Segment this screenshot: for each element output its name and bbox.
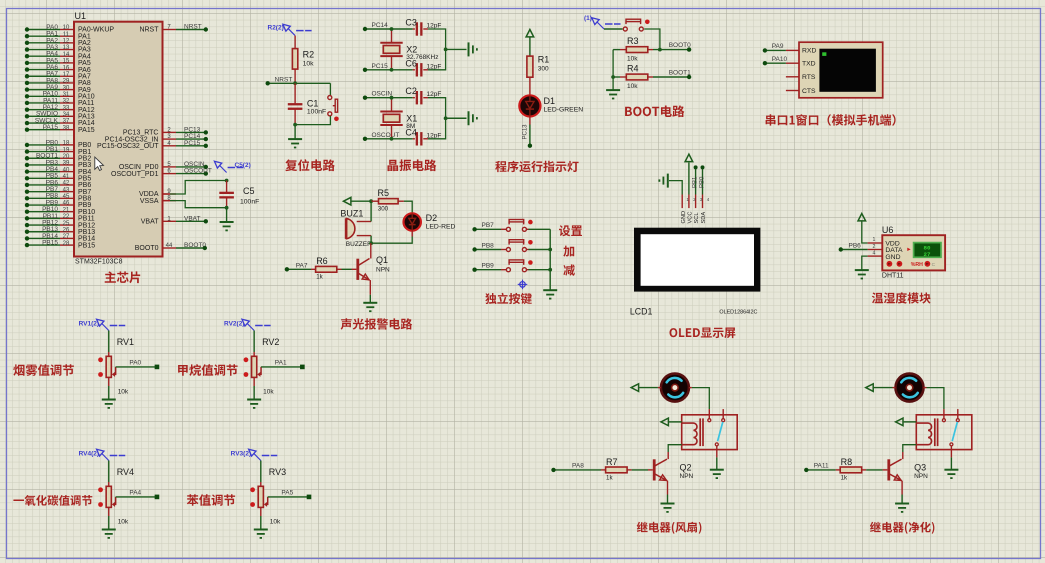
svg-text:PC14: PC14 bbox=[372, 22, 389, 29]
push button PB9 bbox=[506, 268, 510, 272]
DHT11 pin DATA bbox=[868, 249, 883, 251]
wire Q2 emitter to ground bbox=[667, 481, 669, 495]
voltage probe RV4(2) bbox=[97, 449, 104, 456]
svg-text:PA15: PA15 bbox=[78, 127, 95, 134]
wire OLED SDA to PB0 bbox=[702, 195, 704, 209]
wire VSSA to C5 bottom bbox=[163, 200, 171, 202]
wire net PA3 to U1 pin 13 bbox=[27, 49, 60, 51]
svg-text:40: 40 bbox=[63, 167, 70, 173]
wire net PA5 to U1 pin 15 bbox=[27, 62, 60, 64]
wire net PA1 to U1 pin 11 bbox=[27, 35, 60, 37]
svg-text:PA7: PA7 bbox=[296, 262, 308, 269]
wire net VBAT bbox=[176, 220, 206, 222]
crystal X1 bbox=[391, 98, 393, 112]
DHT11 pin VDD bbox=[868, 242, 883, 244]
svg-text:PC15: PC15 bbox=[184, 140, 201, 147]
potentiometer RV1 bbox=[108, 331, 110, 353]
svg-text:PA0: PA0 bbox=[129, 360, 141, 367]
label 烟雾值调节 bbox=[13, 364, 74, 376]
svg-text:C2: C2 bbox=[405, 86, 417, 96]
label 温湿度模块 bbox=[872, 292, 931, 303]
svg-text:C6: C6 bbox=[405, 58, 417, 68]
svg-text:21: 21 bbox=[63, 207, 70, 213]
svg-text:OSCIN: OSCIN bbox=[372, 91, 393, 98]
svg-text:300: 300 bbox=[538, 66, 549, 73]
svg-text:GND: GND bbox=[885, 254, 900, 261]
svg-text:(1): (1) bbox=[584, 15, 592, 22]
svg-text:U6: U6 bbox=[882, 225, 894, 235]
wire net PA0 to U1 pin 10 bbox=[27, 29, 60, 31]
wire C5 to ground bbox=[226, 208, 228, 222]
svg-text:BUZZER: BUZZER bbox=[346, 241, 372, 248]
DHT11 pin GND bbox=[868, 255, 883, 257]
svg-text:VSSA: VSSA bbox=[140, 198, 159, 205]
junction PC15 crystal bbox=[390, 68, 394, 72]
svg-text:PC15-OSC32_OUT: PC15-OSC32_OUT bbox=[97, 143, 159, 150]
svg-text:R1: R1 bbox=[538, 55, 550, 65]
svg-text:PA4: PA4 bbox=[129, 490, 141, 497]
wire VCC to R1 bbox=[529, 38, 531, 57]
wire net PC15 bbox=[365, 69, 392, 71]
wire RV1 to ground bbox=[108, 377, 110, 386]
junction OSCOUT crystal bbox=[390, 137, 394, 141]
wire RV4 to ground bbox=[108, 507, 110, 516]
capacitor C3 bbox=[392, 28, 413, 30]
svg-text:PB15: PB15 bbox=[78, 242, 95, 249]
label 继电器(净化) bbox=[870, 522, 935, 534]
svg-text:100nF: 100nF bbox=[307, 109, 326, 116]
wire net SWDIO to U1 pin 34 bbox=[27, 115, 60, 117]
wire C1 to ground bbox=[294, 125, 296, 140]
power arrow DHT11 VDD bbox=[858, 214, 866, 221]
ground BOOT circuit bbox=[606, 89, 620, 91]
wire power to fan bbox=[874, 387, 893, 389]
junction X2 ground rail bbox=[444, 48, 448, 52]
wire buzzer bottom to collector bbox=[370, 236, 372, 244]
svg-text:10: 10 bbox=[63, 25, 70, 31]
resistor R6 bbox=[311, 268, 316, 270]
svg-text:D2: D2 bbox=[426, 213, 438, 223]
svg-text:RV3(2): RV3(2) bbox=[231, 450, 251, 457]
wire power to R5 junction bbox=[352, 200, 372, 202]
wire GND to ground bbox=[862, 256, 868, 270]
svg-text:BOOT0: BOOT0 bbox=[669, 42, 691, 49]
svg-text:C4: C4 bbox=[405, 127, 417, 137]
wire net PB7 to U1 pin 43 bbox=[27, 191, 60, 193]
ground Q2 bbox=[661, 503, 675, 505]
junction node C5 bottom bbox=[225, 206, 229, 210]
wire X2 caps to ground rail bbox=[428, 29, 446, 70]
svg-text:X2: X2 bbox=[406, 44, 417, 54]
svg-text:U1: U1 bbox=[75, 11, 87, 21]
svg-text:16: 16 bbox=[63, 65, 70, 71]
fan motor Q2 block bbox=[661, 374, 689, 402]
power arrow fan bbox=[866, 384, 873, 392]
svg-text:C: C bbox=[932, 262, 936, 268]
transistor Q3 bbox=[887, 459, 890, 480]
resistor R8 bbox=[836, 469, 841, 471]
wire RV2 to ground bbox=[253, 377, 255, 386]
capacitor C4 bbox=[392, 138, 413, 140]
svg-text:SCL: SCL bbox=[694, 212, 700, 223]
svg-text:42: 42 bbox=[63, 181, 70, 187]
svg-text:PA9: PA9 bbox=[772, 43, 784, 50]
wire net OSCOUT bbox=[365, 138, 392, 140]
wire fan to relay switch bbox=[924, 387, 927, 389]
svg-text:NPN: NPN bbox=[914, 473, 928, 480]
svg-text:PB6: PB6 bbox=[849, 243, 862, 250]
wire net PC14 bbox=[176, 138, 206, 140]
wire net SWCLK to U1 pin 37 bbox=[27, 122, 60, 124]
svg-text:RV4: RV4 bbox=[117, 467, 134, 477]
svg-text:12: 12 bbox=[63, 39, 70, 45]
wire OLED SCL to PB1 bbox=[695, 195, 697, 209]
svg-text:PB8: PB8 bbox=[482, 242, 495, 249]
label 主芯片 bbox=[105, 271, 141, 283]
power arrow OLED VCC bbox=[685, 154, 693, 161]
wire net PA9 to RXD bbox=[765, 49, 786, 51]
ground RV2 bbox=[247, 399, 261, 401]
wire net PA4 bbox=[116, 496, 157, 498]
wire net PB9 to button bbox=[475, 269, 501, 271]
label 加 bbox=[563, 246, 574, 257]
buzzer BUZ1 bbox=[347, 219, 355, 239]
wire net PA8 to U1 pin 29 bbox=[27, 82, 60, 84]
svg-text:28: 28 bbox=[63, 241, 70, 247]
wire net PA1 bbox=[261, 366, 302, 368]
potentiometer RV4 bbox=[108, 461, 110, 483]
svg-text:BOOT1: BOOT1 bbox=[669, 70, 691, 77]
wire relay coil to collector bbox=[668, 445, 682, 452]
mouse cursor bbox=[95, 157, 104, 171]
label 甲烷值调节 bbox=[178, 364, 238, 376]
relay coil bbox=[682, 423, 697, 445]
svg-text:TXD: TXD bbox=[802, 61, 816, 68]
voltage probe RV1(2) bbox=[97, 319, 104, 326]
resistor R1 bbox=[527, 56, 533, 77]
svg-text:R5: R5 bbox=[378, 188, 390, 198]
svg-text:RXD: RXD bbox=[802, 48, 816, 55]
wire net PB11 to U1 pin 22 bbox=[27, 217, 60, 219]
svg-text:RV1: RV1 bbox=[117, 337, 134, 347]
svg-text:1k: 1k bbox=[841, 475, 848, 482]
svg-text:2: 2 bbox=[873, 244, 876, 250]
ground RV3 bbox=[254, 529, 268, 531]
svg-text:300: 300 bbox=[378, 206, 389, 213]
svg-text:SDA: SDA bbox=[701, 212, 707, 224]
wire power to fan bbox=[639, 387, 658, 389]
voltage probe RV3(2) bbox=[249, 449, 256, 456]
potentiometer RV4 adjust dots bbox=[98, 487, 103, 492]
label 继电器(风扇) bbox=[637, 522, 702, 534]
svg-text:RV3: RV3 bbox=[269, 467, 286, 477]
svg-text:OSCOUT_PD1: OSCOUT_PD1 bbox=[111, 171, 159, 178]
crystal X2 bbox=[391, 29, 393, 43]
wire OLED VCC to power bbox=[688, 195, 690, 209]
svg-text:1k: 1k bbox=[606, 475, 613, 482]
svg-text:Q3: Q3 bbox=[914, 462, 926, 472]
wire relay common to ground bbox=[950, 446, 952, 458]
wire net PA7 to U1 pin 17 bbox=[27, 75, 60, 77]
svg-text:RV2: RV2 bbox=[262, 337, 279, 347]
wire boot button to BOOT0 junction bbox=[644, 29, 660, 50]
wire net PA11 to U1 pin 32 bbox=[27, 102, 60, 104]
wire OLED GND to ground bbox=[681, 195, 683, 209]
potentiometer RV1 adjust dots bbox=[98, 357, 103, 362]
label 独立按键 bbox=[485, 293, 532, 304]
ground RV1 bbox=[102, 399, 116, 401]
svg-text:VBAT: VBAT bbox=[184, 215, 201, 222]
svg-text:R3: R3 bbox=[627, 36, 639, 46]
svg-text:BOOT0: BOOT0 bbox=[135, 245, 159, 252]
svg-text:1: 1 bbox=[873, 237, 876, 243]
svg-text:PB9: PB9 bbox=[482, 263, 495, 270]
wire net PB6 to U1 pin 42 bbox=[27, 184, 60, 186]
ground reset circuit bbox=[288, 138, 302, 140]
relay body bbox=[682, 415, 738, 450]
wire D1 to PC13 terminal bbox=[529, 117, 531, 125]
wire net PA7 to R6 bbox=[287, 268, 311, 270]
wire net PA6 to U1 pin 16 bbox=[27, 69, 60, 71]
potentiometer RV2 adjust dots bbox=[244, 357, 249, 362]
potentiometer RV3 wiper bbox=[265, 497, 268, 505]
svg-text:PB15: PB15 bbox=[42, 240, 58, 247]
wire VDD power bbox=[862, 222, 868, 244]
svg-text:27: 27 bbox=[924, 251, 931, 258]
junction R5 left bbox=[369, 199, 373, 203]
wire net BOOT1 bbox=[653, 76, 689, 78]
svg-text:VCC: VCC bbox=[688, 211, 694, 223]
svg-text:C5(2): C5(2) bbox=[235, 162, 251, 169]
ground buttons bbox=[543, 289, 557, 291]
DHT11 U6 body bbox=[882, 235, 945, 270]
svg-text:41: 41 bbox=[63, 174, 70, 180]
wire button PB9 to common rail bbox=[526, 269, 528, 271]
wire net PB9 to U1 pin 46 bbox=[27, 204, 60, 206]
svg-text:▶: ▶ bbox=[907, 246, 911, 251]
resistor R3 bbox=[613, 49, 620, 51]
wire net OSCIN bbox=[365, 97, 392, 99]
transistor Q2 bbox=[653, 459, 656, 480]
boot button bbox=[623, 27, 627, 31]
svg-text:R6: R6 bbox=[316, 256, 328, 266]
wire net PB15 to U1 pin 28 bbox=[27, 244, 60, 246]
svg-text:30: 30 bbox=[63, 85, 70, 91]
ground X1 bbox=[468, 111, 470, 125]
svg-text:R4: R4 bbox=[627, 63, 639, 73]
wire net OSCOUT bbox=[176, 173, 206, 175]
voltage probe R2(2) bbox=[283, 24, 290, 31]
svg-text:NPN: NPN bbox=[680, 473, 694, 480]
capacitor C6 bbox=[392, 69, 413, 71]
svg-text:PA11: PA11 bbox=[814, 463, 829, 470]
junction R4 left bbox=[611, 75, 615, 79]
power arrow fan bbox=[631, 384, 638, 392]
wire net PB12 to U1 pin 25 bbox=[27, 224, 60, 226]
svg-text:STM32F103C8: STM32F103C8 bbox=[75, 259, 123, 266]
capacitor C5 bbox=[226, 181, 228, 194]
chip U1 body bbox=[74, 22, 163, 257]
ground OLED (rotated left) bbox=[667, 174, 669, 188]
svg-text:10k: 10k bbox=[270, 519, 281, 526]
relay contact (cyan) bbox=[718, 422, 723, 441]
label BOOT电路 bbox=[625, 105, 684, 117]
svg-text:31: 31 bbox=[63, 92, 70, 98]
svg-text:10k: 10k bbox=[118, 519, 129, 526]
svg-text:C5: C5 bbox=[243, 186, 255, 196]
wire reset button to C1 bottom bbox=[295, 116, 330, 125]
svg-text:C3: C3 bbox=[405, 18, 417, 28]
svg-text:X1: X1 bbox=[406, 113, 417, 123]
wire VDDA to C5 top bbox=[163, 193, 171, 195]
svg-text:PC13: PC13 bbox=[523, 124, 529, 140]
svg-text:OSCOUT: OSCOUT bbox=[372, 132, 400, 139]
svg-text:LCD1: LCD1 bbox=[630, 307, 653, 317]
svg-text:45: 45 bbox=[63, 194, 70, 200]
wire RV3 to ground bbox=[260, 507, 262, 516]
junction X1 ground rail bbox=[444, 116, 448, 120]
label 苯值调节 bbox=[187, 494, 235, 506]
svg-text:10k: 10k bbox=[627, 56, 638, 63]
wire Q3 emitter to ground bbox=[901, 481, 903, 495]
svg-text:38: 38 bbox=[63, 125, 70, 131]
origin marker bbox=[520, 282, 526, 288]
common button rail bbox=[549, 229, 551, 290]
wire net PA12 to U1 pin 33 bbox=[27, 109, 60, 111]
potentiometer RV2 wiper bbox=[259, 367, 262, 375]
power arrow relay coil bbox=[661, 418, 668, 426]
svg-text:13: 13 bbox=[63, 45, 70, 51]
svg-text:32: 32 bbox=[63, 99, 70, 105]
svg-text:GND: GND bbox=[681, 211, 687, 224]
label 声光报警电路 bbox=[341, 318, 413, 329]
svg-text:R8: R8 bbox=[841, 457, 853, 467]
junction BOOT0 bbox=[658, 48, 662, 52]
junction PC14 crystal bbox=[390, 27, 394, 31]
svg-text:RV2(2): RV2(2) bbox=[224, 320, 244, 327]
potentiometer RV2 bbox=[253, 331, 255, 353]
wire net BOOT0 bbox=[653, 49, 689, 51]
svg-text:CTS: CTS bbox=[802, 88, 816, 95]
svg-text:RV4(2): RV4(2) bbox=[79, 450, 99, 457]
wire net PA15 to U1 pin 38 bbox=[27, 129, 60, 131]
virtual terminal body bbox=[799, 42, 883, 98]
relay contact (cyan) bbox=[952, 422, 957, 441]
svg-text:R7: R7 bbox=[606, 457, 618, 467]
ground Q1 bbox=[363, 302, 377, 304]
wire net PB0 to U1 pin 18 bbox=[27, 144, 60, 146]
wire net PA0 bbox=[116, 366, 157, 368]
wire net PA10 to U1 pin 31 bbox=[27, 95, 60, 97]
wire net NRST horizontal bbox=[268, 82, 331, 84]
wire net PA9 to U1 pin 30 bbox=[27, 89, 60, 91]
reset button bbox=[328, 96, 332, 100]
wire net PB5 to U1 pin 41 bbox=[27, 177, 60, 179]
svg-text:OLED12864I2C: OLED12864I2C bbox=[719, 310, 757, 316]
svg-text:25: 25 bbox=[63, 221, 70, 227]
wire buzzer top to R5 junction bbox=[370, 201, 372, 221]
svg-text:D1: D1 bbox=[544, 96, 556, 106]
wire X2 rail to ground bbox=[446, 48, 467, 50]
ground DHT11 bbox=[855, 269, 869, 271]
resistor R2 bbox=[294, 36, 296, 49]
svg-text:RTS: RTS bbox=[802, 74, 816, 81]
ground below C5 bbox=[220, 221, 234, 223]
svg-text:10k: 10k bbox=[118, 389, 129, 396]
svg-text:34: 34 bbox=[63, 112, 70, 118]
svg-text:NPN: NPN bbox=[376, 267, 390, 274]
svg-text:44: 44 bbox=[166, 243, 173, 249]
voltage probe C5(2) bbox=[214, 161, 221, 168]
junction OSCIN crystal bbox=[390, 96, 394, 100]
svg-text:PA15: PA15 bbox=[43, 124, 59, 131]
svg-text:19: 19 bbox=[63, 147, 70, 153]
svg-text:14: 14 bbox=[63, 52, 70, 58]
push button PB8 bbox=[506, 248, 510, 252]
svg-text:RV1(2): RV1(2) bbox=[79, 320, 99, 327]
wire relay coil to collector bbox=[903, 445, 917, 452]
svg-text:33: 33 bbox=[63, 105, 70, 111]
svg-text:R2: R2 bbox=[303, 50, 315, 60]
wire net PA8 bbox=[554, 469, 602, 471]
wire net PB1 to U1 pin 19 bbox=[27, 151, 60, 153]
ground Q3 bbox=[895, 503, 909, 505]
svg-text:PA5: PA5 bbox=[281, 490, 293, 497]
push button PB7 bbox=[506, 227, 510, 231]
svg-text:PB1: PB1 bbox=[692, 176, 698, 188]
svg-text:100nF: 100nF bbox=[240, 199, 259, 206]
label 复位电路 bbox=[285, 159, 335, 171]
svg-text:NRST: NRST bbox=[184, 24, 202, 31]
wire net PB8 to U1 pin 45 bbox=[27, 197, 60, 199]
resistor R7 bbox=[601, 469, 606, 471]
ground X2 bbox=[468, 42, 470, 56]
wire net PB14 to U1 pin 27 bbox=[27, 237, 60, 239]
wire R3/R4 left rail bbox=[612, 50, 614, 91]
wire net PB4 to U1 pin 40 bbox=[27, 171, 60, 173]
wire net PA2 to U1 pin 12 bbox=[27, 42, 60, 44]
wire button PB8 to common rail bbox=[526, 249, 528, 251]
wire net OSCIN bbox=[176, 166, 206, 168]
ground RV4 bbox=[102, 529, 116, 531]
wire NRST to reset button bbox=[329, 83, 331, 95]
svg-text:LED-GREEN: LED-GREEN bbox=[544, 107, 584, 114]
svg-text:PB7: PB7 bbox=[482, 222, 495, 229]
svg-text:18: 18 bbox=[63, 141, 70, 147]
OLED LCD1 body bbox=[634, 228, 760, 292]
wire net PA4 to U1 pin 14 bbox=[27, 55, 60, 57]
svg-text:10k: 10k bbox=[303, 61, 315, 68]
wire R5 to D2 bbox=[404, 201, 412, 213]
wire net PC13 bbox=[176, 131, 206, 133]
junction node C5 top bbox=[225, 179, 229, 183]
svg-text:27: 27 bbox=[63, 234, 70, 240]
label 程序运行指示灯 bbox=[495, 161, 578, 173]
svg-text:PB0: PB0 bbox=[699, 176, 705, 188]
voltage probe RV2(2) bbox=[242, 319, 249, 326]
wire net PA5 bbox=[268, 496, 309, 498]
wire probe to boot button bbox=[604, 28, 623, 30]
wire net PC15 bbox=[176, 145, 206, 147]
svg-text:39: 39 bbox=[63, 161, 70, 167]
svg-text:43: 43 bbox=[63, 187, 70, 193]
svg-text:DHT11: DHT11 bbox=[882, 273, 904, 280]
label 一氧化碳值调节 bbox=[13, 495, 92, 506]
capacitor C2 bbox=[392, 97, 413, 99]
junction NRST/R2/C1 bbox=[293, 81, 297, 85]
svg-text:Q2: Q2 bbox=[680, 462, 692, 472]
svg-text:C1: C1 bbox=[307, 99, 319, 109]
